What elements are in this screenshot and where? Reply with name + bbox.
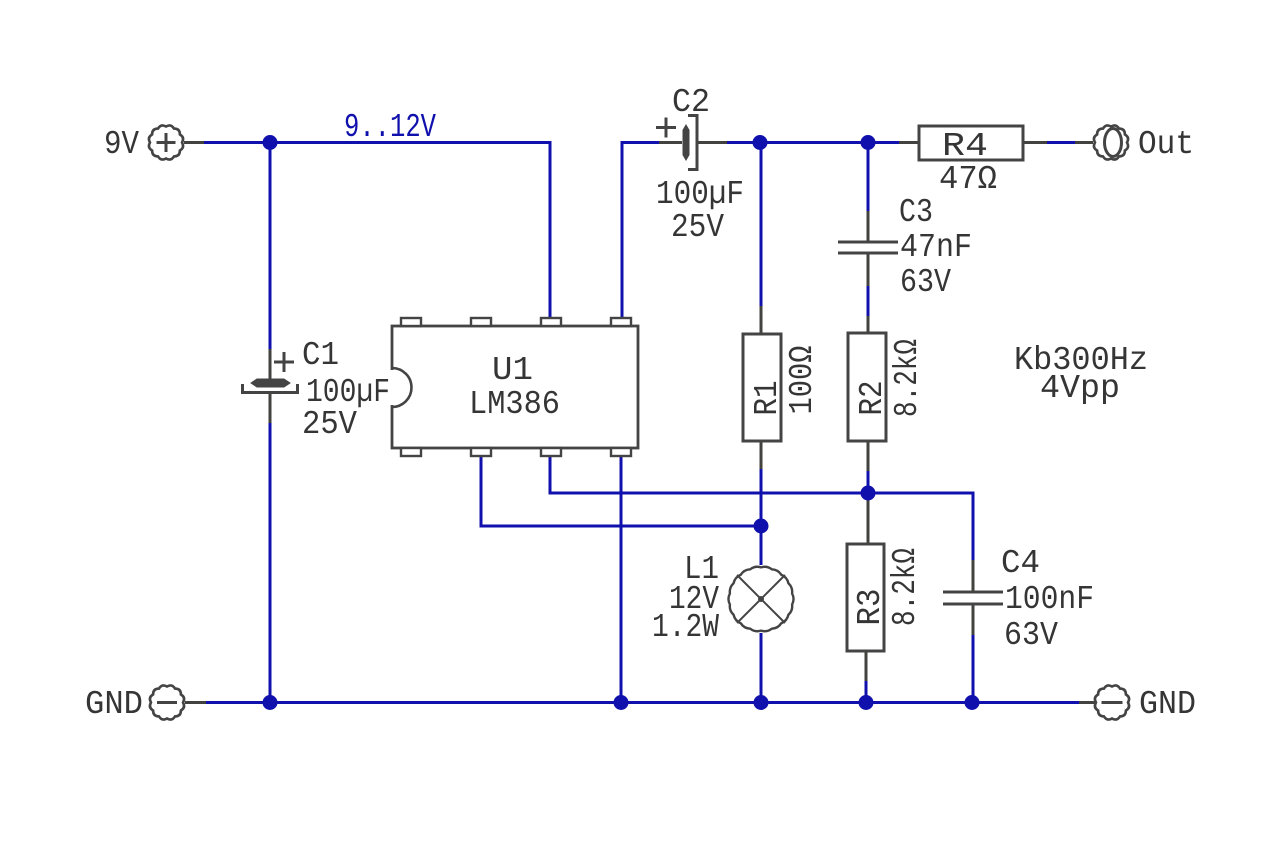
wire GND rail bottom: [205, 701, 1080, 704]
pin 7: [471, 318, 491, 326]
svg-text:9V: 9V: [104, 126, 139, 163]
resistor R4: [919, 126, 1023, 160]
svg-text:Out: Out: [1138, 126, 1194, 163]
svg-text:C1: C1: [302, 337, 339, 374]
terminal GND right: [1095, 685, 1129, 719]
svg-text:8.2kΩ: 8.2kΩ: [887, 548, 924, 626]
pin stubs (dark): [184, 143, 1095, 703]
node dot top rail / R1 branch: [753, 135, 768, 150]
pin 6: [541, 318, 561, 326]
svg-text:63V: 63V: [1004, 617, 1058, 654]
svg-text:100Ω: 100Ω: [784, 346, 821, 415]
svg-text:47Ω: 47Ω: [939, 161, 997, 198]
svg-text:R2: R2: [854, 381, 891, 416]
pin stub C3 top: [867, 211, 870, 241]
pin stub GND right: [1079, 701, 1095, 704]
plus sign C1: [274, 352, 294, 372]
svg-text:R4: R4: [942, 128, 988, 165]
node dot pin2 / lamp net: [754, 519, 769, 534]
pin 3: [541, 448, 561, 456]
wire C3 to R2: [867, 285, 870, 317]
node dot gnd / C1: [263, 695, 278, 710]
svg-text:8.2kΩ: 8.2kΩ: [889, 339, 926, 417]
pin stub C4 bottom: [972, 605, 975, 635]
wire R4 to Out: [1046, 141, 1075, 144]
pin 4: [611, 448, 631, 456]
svg-text:25V: 25V: [302, 406, 357, 443]
terminal GND left: [150, 685, 184, 719]
svg-text:9..12V: 9..12V: [344, 109, 436, 146]
lamp L1: [728, 567, 793, 631]
pin stub C3 bottom: [867, 254, 870, 286]
svg-text:25V: 25V: [671, 209, 724, 246]
svg-text:U1: U1: [492, 352, 533, 389]
op-amp U1 body: [390, 318, 639, 456]
wire R2 bottom to node: [867, 470, 870, 494]
wire 9V rail top: [203, 142, 1080, 704]
pin stub C1 top: [269, 349, 272, 379]
pin stub R4 left: [899, 141, 919, 144]
wire node down to C4: [972, 492, 975, 562]
svg-text:C4: C4: [1001, 545, 1040, 582]
wire C3 branch upper: [867, 143, 870, 213]
pin stub C4 top: [972, 560, 975, 591]
wire R1 bottom to lamp: [760, 468, 763, 565]
pin 5: [611, 318, 631, 326]
node dot top rail / C3 branch: [861, 135, 876, 150]
pin stub R3 bottom: [865, 651, 868, 681]
pin stub R1 bottom: [760, 441, 763, 469]
svg-text:4Vpp: 4Vpp: [1040, 370, 1120, 407]
svg-text:GND: GND: [85, 686, 143, 723]
wire C2 branch vertical: [621, 142, 624, 319]
wire C4 bottom to gnd: [972, 634, 975, 703]
node dot gnd / R3: [859, 695, 874, 710]
wire C1 branch lower: [269, 422, 272, 703]
svg-text:C2: C2: [672, 84, 710, 121]
node dot gnd / lamp: [754, 695, 769, 710]
wire pin3 node horizontal: [550, 457, 973, 493]
resistor R2: [848, 333, 886, 441]
svg-text:R3: R3: [852, 589, 889, 626]
pin stub GND left: [185, 701, 206, 704]
pin 1: [401, 448, 421, 456]
wire C2 right to R4: [726, 141, 900, 144]
wire pin2 to lamp node: [481, 457, 761, 526]
pin stub R3 top: [867, 495, 870, 545]
pin stub R1 top: [760, 306, 763, 335]
node dot top rail / C1 branch: [263, 135, 980, 710]
wire C2 left: [621, 141, 661, 144]
svg-text:C3: C3: [899, 194, 933, 231]
pin 2: [471, 448, 491, 456]
wire pin4 down to gnd: [620, 457, 623, 703]
wire R1 branch upper: [760, 143, 763, 308]
svg-text:47nF: 47nF: [900, 229, 972, 266]
pin stub R2 top: [867, 316, 870, 334]
plus sign C2: [656, 118, 676, 138]
svg-text:LM386: LM386: [469, 386, 560, 423]
node dot R2/R3/C4 net: [861, 486, 876, 501]
node dot gnd / C4: [965, 695, 980, 710]
pin 8: [401, 318, 421, 326]
pin stub C1 bottom: [269, 393, 272, 423]
capacitor C3: [838, 242, 898, 253]
svg-text:1.2W: 1.2W: [652, 609, 719, 646]
pin stub Out: [1075, 141, 1093, 144]
resistor R1: [743, 334, 781, 441]
svg-text:R1: R1: [749, 381, 786, 416]
wire top rail down to U1 pin: [549, 142, 552, 319]
capacitor C1: [243, 352, 298, 393]
capacitor C2: [656, 116, 697, 170]
svg-text:100µF: 100µF: [656, 176, 744, 213]
notch U1: [390, 370, 395, 405]
svg-text:100nF: 100nF: [1005, 581, 1094, 618]
resistor R3: [847, 544, 884, 651]
capacitor C4: [943, 592, 1003, 604]
pin stub C2 right: [697, 141, 727, 144]
pin stub R4 right: [1023, 141, 1047, 144]
pin stub C2 left: [659, 141, 682, 144]
svg-text:63V: 63V: [900, 264, 951, 301]
terminal 9V: [149, 125, 183, 159]
wire lamp bottom to gnd rail: [760, 633, 763, 703]
wire R3 bottom to gnd: [865, 680, 868, 703]
wire C1 branch upper: [269, 142, 272, 351]
node dot gnd / pin4: [614, 695, 629, 710]
pin stub 9V terminal: [184, 141, 204, 144]
svg-text:GND: GND: [1139, 686, 1196, 723]
pin stub R2 bottom: [867, 441, 870, 471]
terminal Out: [1094, 125, 1128, 159]
